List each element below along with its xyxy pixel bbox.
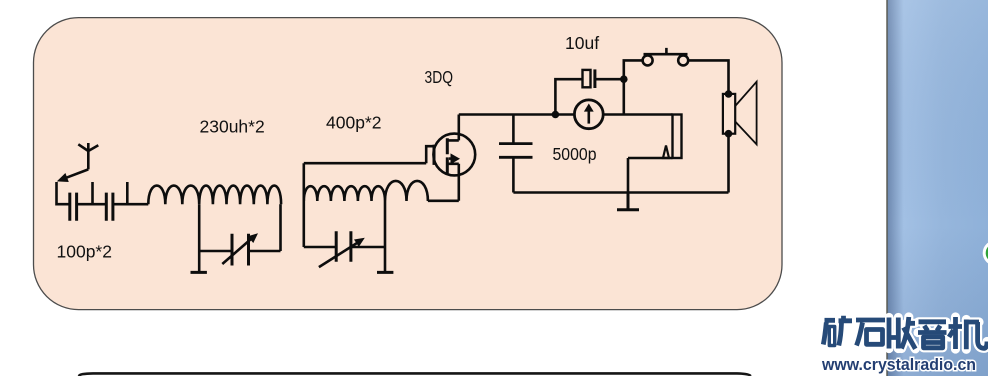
svg-text:100p*2: 100p*2 xyxy=(57,242,112,262)
wire bottom common xyxy=(513,191,728,194)
wire source to L2 xyxy=(428,200,459,203)
ground xyxy=(377,271,393,274)
switch S1 pushbutton xyxy=(643,48,689,66)
svg-text:400p*2: 400p*2 xyxy=(326,113,381,133)
svg-text:www.crystalradio.cn: www.crystalradio.cn xyxy=(821,355,976,374)
wire xyxy=(595,78,624,81)
wire tap L1 to ground xyxy=(198,204,201,272)
stub node xyxy=(126,182,129,204)
earphone T1 xyxy=(663,115,682,159)
current source I1 xyxy=(574,100,603,129)
right blue sidebar xyxy=(888,0,988,376)
wire top rail xyxy=(459,113,673,116)
transistor Q1 3DQ MOSFET xyxy=(426,115,475,201)
capacitor C1 100p xyxy=(70,193,77,221)
svg-text:3DQ: 3DQ xyxy=(425,67,454,87)
inductor L1 230uh xyxy=(148,186,281,205)
variable capacitor VC1 xyxy=(222,233,258,265)
wire switch to speaker xyxy=(688,60,728,94)
wire L2 left vertical xyxy=(302,163,305,247)
wire antenna feed xyxy=(57,182,70,204)
wire varcap row 2 xyxy=(304,246,385,249)
wire speaker to common xyxy=(727,134,730,193)
wire gate xyxy=(304,162,426,165)
wire 10uf branch xyxy=(555,79,582,114)
wire junction drop to rail xyxy=(622,79,625,114)
speaker SP1 xyxy=(723,82,757,145)
wire tap L2 to ground xyxy=(384,201,387,272)
svg-text:5000p: 5000p xyxy=(553,144,597,164)
schematic rounded panel xyxy=(34,18,783,310)
capacitor C4 5000p xyxy=(499,115,533,193)
wire L1 right end xyxy=(279,204,282,251)
ground xyxy=(191,271,207,274)
wire xyxy=(113,203,148,206)
variable capacitor VC2 xyxy=(319,231,365,267)
node junction xyxy=(620,75,628,83)
wire xyxy=(77,203,107,206)
node junction xyxy=(552,111,560,119)
ground main xyxy=(617,193,639,210)
capacitor C3 10uf xyxy=(583,69,595,88)
svg-text:230uh*2: 230uh*2 xyxy=(200,117,265,137)
wire earphone bottom xyxy=(628,158,673,193)
inductor L2 xyxy=(304,181,428,201)
sidebar left border xyxy=(886,0,887,376)
green circle button (clipped at right edge) xyxy=(984,242,988,264)
antenna A1 xyxy=(57,143,99,182)
svg-text:10uf: 10uf xyxy=(565,33,599,53)
stub node xyxy=(91,182,94,204)
wire varcap row 1 xyxy=(199,250,280,253)
bottom divider line xyxy=(79,373,751,376)
wire to switch xyxy=(624,60,643,79)
capacitor C2 100p xyxy=(106,193,113,221)
